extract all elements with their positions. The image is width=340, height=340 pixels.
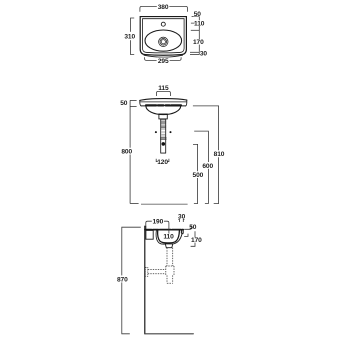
drain trapezoid (side) [165, 244, 173, 248]
rim underside thick band segments (front) [146, 104, 181, 106]
tap centerline (side) [168, 223, 170, 234]
label 50 (front left) [120, 100, 128, 105]
dim 30 hooks (side) [178, 219, 184, 222]
label 380 [157, 3, 169, 9]
svg-text:310: 310 [124, 34, 135, 41]
label 170 (plan right) [193, 39, 203, 45]
pipe lower dashed (side) [167, 275, 173, 283]
label 110 (side) [163, 234, 173, 239]
left chain vertical (front) [129, 100, 131, 203]
tick rim top (front left) [130, 99, 137, 101]
trap joint dot (front) [162, 142, 166, 146]
right chain vertical (plan) [198, 12, 200, 55]
svg-text:810: 810 [214, 151, 225, 158]
branch pipe dashed (side) [148, 270, 166, 274]
floor line (side) [145, 333, 194, 335]
label 190 [152, 218, 163, 224]
bowl inner U (side) [158, 230, 180, 243]
svg-text:600: 600 [202, 163, 213, 170]
label 110 (plan right) [195, 20, 205, 26]
rim inner line (front) [140, 101, 186, 103]
label 30 (plan right) [200, 51, 208, 56]
bowl outer back curve (side) [156, 230, 165, 244]
rim right end cap (front) [186, 100, 187, 106]
svg-text:50: 50 [189, 224, 197, 231]
trap box (front) [159, 114, 167, 119]
dim 500 line (front right) [193, 144, 198, 203]
svg-text:870: 870 [117, 276, 128, 283]
label 310 [124, 32, 136, 40]
svg-text:30: 30 [178, 214, 186, 221]
label 295 [157, 57, 169, 63]
svg-text:170: 170 [191, 237, 202, 244]
label 870 (side left) [117, 275, 128, 282]
dim 120 brackets (front bottom) [156, 159, 169, 162]
svg-text:50: 50 [120, 100, 128, 107]
tick basin bottom (plan right) [190, 54, 199, 56]
dim 870 line (side left) [122, 227, 141, 334]
label 810 (front right) [214, 150, 225, 157]
label 500 (front right) [193, 171, 204, 178]
wall fixing dot left (front) [155, 131, 157, 133]
dim 600 line (front right) [194, 131, 208, 203]
rim top band segments (side) [145, 229, 183, 231]
rim bottom line (front) [141, 105, 185, 107]
floor line (front) [141, 203, 188, 205]
svg-text:800: 800 [121, 149, 132, 156]
svg-text:380: 380 [158, 4, 169, 11]
tick rim bottom (front left) [130, 105, 137, 107]
pipe upper dashed (side) [167, 248, 173, 266]
dim 295 bracket [145, 57, 182, 60]
basin front lip arc (plan) [144, 55, 183, 57]
svg-text:295: 295 [158, 58, 169, 65]
tap hole (plan) [161, 22, 165, 26]
tick floor (front left) [130, 203, 139, 205]
back edge bump (side) [145, 226, 146, 229]
front lip (side) [181, 230, 183, 233]
bowl outer front curve (side) [173, 234, 182, 244]
svg-text:110: 110 [194, 21, 205, 28]
label 600 (front right) [202, 162, 213, 169]
basin outer outline (plan) [140, 17, 186, 56]
pipe threads (front) [161, 120, 166, 129]
svg-text:110: 110 [163, 234, 174, 241]
svg-text:50: 50 [194, 11, 202, 18]
pipe mid marks (front) [162, 132, 166, 136]
svg-text:190: 190 [152, 219, 163, 226]
dim 810 line (front right) [193, 106, 219, 204]
tee fitting dashed (side) [166, 266, 174, 275]
svg-text:170: 170 [193, 39, 204, 46]
bowl underside arc (front) [146, 106, 181, 115]
tick bowl bottom (plan right) [190, 51, 199, 53]
basin inner outline (plan) [143, 19, 185, 53]
label 50 (plan right) [193, 12, 201, 17]
pipe nut (front) [160, 137, 166, 139]
dim 190 bracket (side) [146, 221, 169, 226]
rim left end cap (front) [140, 100, 141, 106]
bowl ellipse (plan) [145, 30, 182, 51]
label 800 (front left) [121, 148, 132, 155]
wall bracket rect (side) [146, 230, 153, 239]
label 170 (side right) [191, 237, 201, 242]
tick basin top (plan right) [192, 16, 200, 18]
pipe walls (front) [161, 119, 166, 153]
dim 310 bracket [131, 18, 135, 55]
dim 380 bracket [140, 6, 188, 11]
dim 50 marks (side right) [184, 225, 191, 236]
drain circles (plan) [159, 37, 168, 46]
svg-text:120: 120 [157, 159, 168, 166]
wall fixing dot right (front) [170, 131, 172, 133]
svg-text:115: 115 [158, 85, 169, 92]
wall line (side) [144, 226, 146, 334]
dim 115 bracket (front) [156, 91, 170, 96]
wall flange dashed (side) [145, 267, 148, 276]
dim 170 marks (side right) [191, 231, 195, 246]
svg-text:500: 500 [193, 172, 204, 179]
tick tap level jog (plan right) [191, 21, 195, 23]
rim top arc (front) [140, 99, 187, 101]
svg-text:30: 30 [200, 50, 208, 57]
tick bowl top (plan right) [191, 29, 200, 31]
